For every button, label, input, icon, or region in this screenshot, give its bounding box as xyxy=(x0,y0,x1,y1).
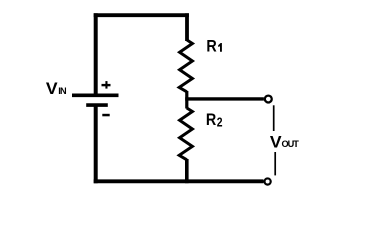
battery plus sign xyxy=(102,81,111,89)
wire right vertical upper (to R1) xyxy=(185,13,189,41)
battery VIN positive long plate xyxy=(72,94,119,98)
wire middle horizontal (to upper terminal) xyxy=(185,97,264,100)
wire left vertical upper xyxy=(94,13,98,93)
svg-text:R: R xyxy=(206,111,216,129)
node VOUT- terminal lower xyxy=(265,178,271,184)
wire top horizontal xyxy=(94,13,189,17)
svg-text:OUT: OUT xyxy=(282,139,300,149)
svg-text:2: 2 xyxy=(217,115,223,129)
svg-text:R: R xyxy=(206,38,216,56)
resistor R2 xyxy=(179,108,192,160)
wire bottom horizontal xyxy=(94,179,264,183)
resistor R1 xyxy=(179,40,192,92)
wire thin vertical upper (terminal link) xyxy=(273,105,275,131)
wire left vertical lower xyxy=(94,105,98,183)
wire between R1 and R2 xyxy=(185,91,188,109)
wire thin vertical lower (terminal link) xyxy=(274,152,276,175)
battery VIN negative short plate xyxy=(86,103,108,107)
node VOUT+ terminal upper xyxy=(265,96,272,103)
svg-text:IN: IN xyxy=(58,86,67,96)
battery minus sign xyxy=(102,114,109,117)
svg-text:V: V xyxy=(270,133,282,151)
svg-text:V: V xyxy=(46,79,58,97)
wire below R2 xyxy=(185,159,189,183)
label R1 subscript 1 xyxy=(218,43,222,52)
